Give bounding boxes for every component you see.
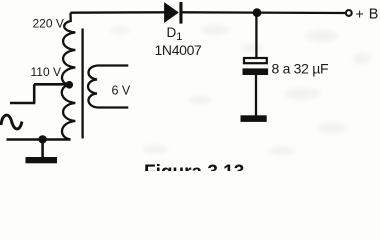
scan noise (110, 25, 371, 155)
svg-text:B: B (369, 6, 379, 22)
node: 110 V tap (66, 81, 74, 89)
svg-text:+: + (356, 5, 364, 21)
transformer T1 secondary winding (88, 66, 128, 108)
transformer T1 primary winding (62, 13, 76, 140)
transformer core (81, 29, 83, 139)
wire: 110 V tap horizontal (34, 83, 69, 86)
node: ground junction (38, 135, 46, 143)
svg-text:6 V: 6 V (112, 84, 131, 98)
diode D1 (165, 2, 183, 24)
wire: capacitor bottom lead (255, 75, 257, 116)
ground (capacitor) (241, 115, 267, 122)
terminal +B (346, 10, 352, 16)
ground (left) (26, 157, 58, 163)
wire: 110 V step lower horizontal (10, 102, 35, 105)
svg-text:8 a 32 µF: 8 a 32 µF (272, 61, 329, 77)
wire: top rail left (transformer top to diode anode) (71, 11, 165, 14)
wire: capacitor top lead (255, 13, 257, 58)
wire: ground lead (41, 139, 44, 157)
node: junction at capacitor (253, 8, 262, 17)
svg-text:110 V: 110 V (31, 65, 61, 79)
ac source squiggle (1, 115, 22, 129)
capacitor C1 (electrolytic) (243, 58, 269, 75)
svg-text:1N4007: 1N4007 (155, 42, 203, 58)
wire: bottom return (7, 138, 71, 141)
svg-text:220 V: 220 V (33, 17, 64, 31)
svg-text:Figura 3.13: Figura 3.13 (144, 162, 244, 171)
wire: 110 V step vertical (33, 84, 36, 103)
wire: top rail right (diode cathode to output terminal) (183, 11, 346, 14)
